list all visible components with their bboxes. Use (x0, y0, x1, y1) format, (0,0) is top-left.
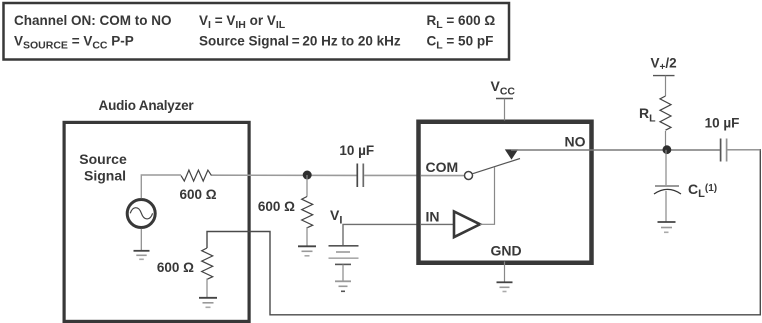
svg-text:Channel ON: COM to NO: Channel ON: COM to NO (14, 13, 172, 28)
svg-text:600 Ω: 600 Ω (157, 260, 194, 275)
svg-text:Source Signal = 20 Hz to 20 kH: Source Signal = 20 Hz to 20 kHz (199, 34, 401, 49)
svg-text:IN: IN (426, 208, 440, 224)
svg-text:V+/2: V+/2 (651, 56, 677, 74)
svg-text:600 Ω: 600 Ω (258, 199, 295, 214)
svg-text:CL(1): CL(1) (688, 181, 717, 200)
svg-text:600 Ω: 600 Ω (179, 187, 216, 202)
svg-text:VCC: VCC (491, 78, 516, 98)
svg-text:VI: VI (330, 207, 342, 227)
svg-text:10 µF: 10 µF (339, 143, 374, 158)
svg-text:Source: Source (79, 151, 127, 167)
svg-text:GND: GND (490, 243, 521, 259)
svg-text:RL: RL (639, 105, 656, 125)
svg-text:Audio Analyzer: Audio Analyzer (99, 98, 195, 113)
svg-text:Signal: Signal (84, 168, 126, 184)
svg-text:NO: NO (565, 134, 586, 150)
svg-text:COM: COM (426, 159, 459, 175)
svg-text:10 µF: 10 µF (705, 115, 740, 130)
